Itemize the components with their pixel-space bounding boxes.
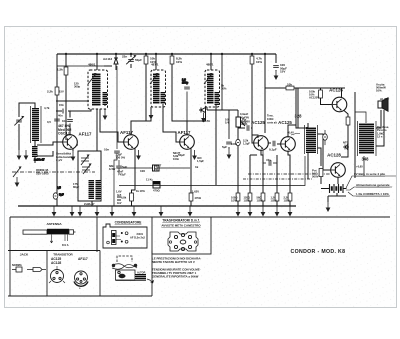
svg-text:15V: 15V: [59, 90, 64, 94]
driver transformer 328 winding: [306, 127, 316, 153]
svg-text:5µF: 5µF: [222, 145, 227, 149]
svg-text:4,7k: 4,7k: [44, 106, 50, 110]
svg-text:5µF: 5µF: [59, 193, 64, 197]
diode AA112: [114, 54, 118, 70]
variable capacitor oscillator section arrow: [13, 166, 22, 177]
wire IFT3 secondary down: [215, 105, 217, 185]
wire driver primary bottom: [307, 153, 309, 179]
transistor AF117 pinout: [75, 271, 88, 284]
wire emitter T4: [261, 150, 263, 193]
svg-text:1k 10%: 1k 10%: [136, 189, 145, 193]
wire IFT2 top lead: [155, 54, 157, 70]
svg-text:470Ω: 470Ω: [195, 196, 201, 200]
svg-text:100: 100: [140, 169, 145, 173]
svg-text:TRASFORMATORI D.m.f.: TRASFORMATORI D.m.f.: [162, 219, 200, 223]
earphone wiring drawing: [117, 256, 132, 262]
battery 6V: [330, 184, 344, 193]
wire output secondary down: [363, 156, 365, 176]
ground detector: [201, 113, 206, 123]
jack cell divider: [46, 251, 48, 297]
svg-text:487/1: 487/1: [151, 63, 159, 67]
wire top supply bus: [57, 53, 276, 55]
capacitor mounting dots: [107, 241, 110, 244]
wire emitter T2: [132, 148, 136, 194]
coupling cap T4-T5: [268, 143, 281, 144]
wire emitter T1: [72, 148, 74, 151]
ground battery: [326, 202, 331, 212]
resistor emitter T5: [288, 193, 292, 201]
capacitor neutralizing 10n: [67, 120, 73, 122]
resistor emitter T2: [130, 193, 134, 201]
svg-text:Stintn: Stintn: [240, 122, 248, 126]
wire IFT1 primary top lead: [96, 54, 98, 70]
wire to bus: [190, 201, 192, 206]
svg-text:15V: 15V: [280, 70, 285, 74]
wire to AC128 collector: [341, 125, 348, 157]
svg-text:CONDOR - MOD. K8: CONDOR - MOD. K8: [291, 249, 346, 255]
svg-text:JACK: JACK: [20, 253, 29, 257]
wire antenna top: [19, 103, 35, 117]
wire coil interlink: [34, 141, 36, 163]
svg-text:AF D,5n 2x2: AF D,5n 2x2: [130, 235, 145, 239]
transistor AC125 driver: [281, 137, 296, 152]
svg-text:AA112: AA112: [103, 57, 113, 61]
ground coil return: [24, 150, 29, 160]
interstage line: [117, 167, 190, 169]
wire collector AC126 to bias: [341, 88, 343, 98]
svg-text:100 5%: 100 5%: [116, 156, 126, 160]
svg-text:2,2k: 2,2k: [47, 90, 53, 94]
svg-text:2,5: 2,5: [57, 186, 61, 190]
tuning capacitor trimmer: [112, 231, 117, 245]
svg-text:AC125V: AC125V: [309, 96, 319, 100]
ground T2 emitter: [136, 150, 141, 160]
svg-text:+47µF: +47µF: [118, 173, 126, 177]
svg-text:Rodagg: Rodagg: [240, 119, 250, 123]
neutralizing wire mid: [114, 66, 117, 206]
svg-text:NTC: NTC: [343, 141, 349, 145]
svg-text:5pF: 5pF: [154, 167, 159, 171]
diode thermistor NTC: [343, 145, 349, 150]
output transformer 348 core: [358, 121, 377, 156]
svg-text:AC125: AC125: [278, 120, 292, 125]
wire emitter T5: [288, 151, 290, 193]
svg-text:D E A: D E A: [62, 244, 69, 247]
row divider: [8, 250, 100, 252]
wire down to resistor row: [237, 146, 239, 193]
svg-text:15k: 15k: [59, 103, 64, 107]
oscillator block box: [78, 151, 101, 201]
AF feed line: [265, 87, 345, 89]
svg-text:10%: 10%: [256, 60, 262, 64]
svg-text:6,8k: 6,8k: [121, 196, 127, 200]
svg-text:0,3auF: 0,3auF: [240, 112, 249, 116]
transistor cell divider: [99, 251, 101, 297]
svg-text:80pF: 80pF: [73, 185, 80, 189]
svg-text:OSCILL.: OSCILL.: [58, 132, 71, 136]
wire emitter T3: [190, 148, 192, 194]
wire driver secondary lower: [318, 148, 322, 166]
detector diode OA79: [199, 107, 229, 113]
wire collector T5 to driver transformer: [288, 88, 308, 137]
transistor AC126: [332, 97, 347, 112]
svg-text:NORMA: NORMA: [12, 263, 22, 267]
telescopic antenna drawing: [23, 230, 47, 234]
svg-text:ANTENNA: ANTENNA: [46, 222, 62, 226]
speaker: [378, 101, 382, 108]
wire emitter AC126 down: [344, 111, 348, 118]
electrolytic on rail: [53, 193, 58, 199]
svg-text:10n: 10n: [62, 119, 67, 123]
svg-text:6V Batt. in serie 4 pile: 6V Batt. in serie 4 pile: [354, 172, 385, 176]
wire collector T3: [187, 107, 206, 135]
svg-text:1,5µF: 1,5µF: [197, 159, 204, 163]
capacitor AGC 47n: [116, 166, 122, 168]
svg-text:470Ω: 470Ω: [153, 189, 160, 193]
antenna cell divider: [96, 217, 98, 252]
svg-text:+0,4V: +0,4V: [287, 131, 294, 135]
IF transformer can 1: [88, 70, 108, 109]
svg-text:CONDENSATORE: CONDENSATORE: [115, 221, 142, 225]
svg-text:serie alt: serie alt: [267, 120, 277, 124]
wire osc top lead: [96, 109, 98, 151]
svg-text:AC128: AC128: [327, 153, 341, 158]
svg-text:50µF: 50µF: [135, 58, 142, 62]
svg-text:2x98+47: 2x98+47: [34, 158, 45, 162]
cells bottom rule: [8, 295, 152, 297]
capacitor NEUT 5pF: [153, 165, 160, 171]
svg-text:1kV: 1kV: [117, 202, 122, 205]
svg-text:1,5µF: 1,5µF: [243, 142, 250, 146]
transistor AF117 second IF: [180, 135, 195, 150]
svg-text:348: 348: [362, 157, 370, 162]
svg-text:486/1: 486/1: [88, 63, 96, 67]
svg-text:328: 328: [295, 114, 303, 119]
resistor GR 11kc filter: [153, 182, 160, 189]
svg-text:2x98+47: 2x98+47: [84, 202, 95, 206]
svg-text:10n: 10n: [104, 148, 109, 152]
wire bus end drop: [275, 54, 277, 71]
capacitor coupling 47n: [269, 160, 271, 166]
earphone cell right divider: [151, 251, 153, 297]
transistor AC125 first AF: [254, 136, 269, 151]
driver transformer 328 core: [305, 125, 318, 154]
ground IFT2 primary return: [149, 110, 154, 120]
wire battery to ground: [328, 193, 346, 202]
svg-text:AVVISTE META CANESTRO: AVVISTE META CANESTRO: [161, 223, 201, 227]
capacitor small mid: [114, 151, 120, 153]
svg-text:12 n: 12 n: [377, 135, 383, 139]
svg-text:10k: 10k: [287, 83, 292, 87]
svg-text:AF117: AF117: [120, 130, 133, 135]
IF transformer can 2: [151, 70, 166, 107]
svg-text:10%: 10%: [176, 60, 182, 64]
wire bias T5: [276, 155, 278, 193]
wire collector T2: [131, 107, 151, 135]
dashed AGC line: [243, 178, 312, 180]
svg-text:AF117: AF117: [178, 130, 191, 135]
feedback line: [119, 156, 305, 186]
svg-text:1k: 1k: [195, 165, 199, 169]
svg-text:5µF: 5µF: [122, 165, 127, 169]
wire from bus to detector: [222, 54, 229, 149]
callout line battery voltage: [346, 176, 396, 188]
ferrite antenna coil L1: [32, 108, 39, 141]
resistor 8,2k: [172, 54, 187, 121]
capacitor electrolytic 5uF: [236, 139, 241, 145]
svg-text:500V: 500V: [312, 175, 319, 179]
svg-text:AC125: AC125: [251, 120, 265, 125]
wire IFT2 secondary to base: [163, 104, 180, 142]
svg-text:100n: 100n: [173, 157, 179, 161]
callout line supply: [346, 187, 392, 190]
AGC line: [57, 65, 104, 67]
transistor AC125/AC128 pinout: [51, 270, 64, 283]
svg-text:MENTE TARATE BATTITO 1/2 V: MENTE TARATE BATTITO 1/2 V: [152, 260, 195, 264]
capacitor on supply rail: [54, 119, 60, 121]
feedback line 2: [248, 173, 330, 175]
wire IFT3 top lead: [210, 54, 212, 70]
svg-text:10%: 10%: [221, 87, 227, 91]
wire extra bias: [249, 155, 251, 193]
svg-text:0,1µF: 0,1µF: [269, 148, 277, 152]
resistor row r1: [236, 193, 240, 201]
info band top rule: [10, 216, 390, 218]
svg-text:AF117: AF117: [78, 257, 88, 261]
transistor AC128 output: [331, 163, 346, 178]
svg-text:10%: 10%: [376, 89, 382, 93]
ground: [17, 150, 22, 160]
svg-text:AC128: AC128: [51, 261, 61, 265]
trimmer arrow: [126, 54, 136, 66]
jack plug drawing: [12, 269, 30, 271]
variable capacitor tuning: [16, 120, 22, 122]
svg-text:Tens.: Tens.: [267, 114, 274, 118]
volume potentiometer 10k: [236, 117, 241, 127]
wire rail tap: [56, 100, 89, 102]
electrolytic cap AF: [323, 134, 328, 140]
capacitor 40n series: [63, 109, 66, 114]
resistor 10k horizontal: [286, 86, 294, 90]
svg-text:100Ω: 100Ω: [267, 117, 273, 121]
wire collector to IFT1: [56, 109, 91, 135]
capacitor trimmer 50pF: [130, 54, 132, 68]
ground T1 emitter: [71, 151, 76, 161]
resistor emitter T4: [261, 193, 265, 201]
svg-text:11 Kc: 11 Kc: [146, 178, 154, 182]
svg-text:ALTOP.: ALTOP.: [137, 272, 146, 275]
right rail: [354, 92, 356, 178]
svg-text:2 µV: 2 µV: [56, 158, 62, 162]
antenna coupling coil L2: [32, 146, 38, 157]
svg-text:0,5: 0,5: [47, 120, 51, 124]
ground arrows row right: [236, 207, 241, 217]
transistor AF117 first IF: [124, 135, 139, 150]
svg-text:50µF6V: 50µF6V: [240, 115, 249, 119]
oscillator coil winding 1: [89, 180, 95, 199]
resistor 10k: [138, 54, 146, 121]
svg-text:AF117: AF117: [79, 132, 92, 137]
trimmer capacitor osc 1: [81, 154, 90, 165]
resistor 4,7k feed AC125: [252, 54, 258, 138]
resistor emitter T3: [189, 193, 193, 201]
wire to ground: [18, 124, 20, 150]
ground: [274, 70, 279, 80]
svg-text:40n: 40n: [58, 114, 63, 118]
wire pot top from detector: [229, 110, 238, 117]
wire AF amp feed: [264, 54, 266, 133]
svg-text:TRANSISTOR: TRANSISTOR: [53, 253, 73, 257]
svg-text:1/2W: 1/2W: [271, 198, 278, 202]
svg-text:1,62V: 1,62V: [192, 190, 199, 194]
wire driver secondary to AC128 base: [318, 134, 331, 170]
svg-text:488/1: 488/1: [206, 63, 214, 67]
wire pot bottom: [237, 127, 239, 139]
svg-text:22n: 22n: [122, 55, 127, 59]
svg-text:47n: 47n: [266, 158, 271, 162]
svg-text:100p: 100p: [182, 81, 188, 85]
svg-text:1,5k: 1,5k: [57, 68, 63, 72]
svg-text:I. Re CORRETTA ± 10%: I. Re CORRETTA ± 10%: [356, 192, 389, 196]
resistor 100k bias: [320, 88, 322, 90]
output transformer 348 winding: [359, 123, 374, 154]
ground T3 emitter: [192, 150, 197, 160]
wire output transformer top: [355, 112, 366, 123]
svg-text:1/2W: 1/2W: [257, 198, 264, 202]
svg-text:300p: 300p: [74, 85, 80, 89]
coupling capacitor: [238, 127, 252, 129]
oscillator coil winding 2: [96, 180, 102, 200]
bottom ground bus: [18, 205, 296, 207]
svg-text:GENERALITE RIPORTATA a 50kW: GENERALITE RIPORTATA a 50kW: [152, 275, 199, 279]
tuning gang dashed link: [12, 171, 95, 173]
svg-text:AL70F: AL70F: [380, 97, 389, 101]
svg-text:1/2W: 1/2W: [244, 198, 251, 202]
wire base T4: [252, 128, 254, 143]
capacitor 50uF to ground: [273, 66, 279, 68]
callout wire 0,4V: [291, 134, 300, 136]
IF transformer can 3: [205, 70, 220, 107]
svg-text:AC126: AC126: [329, 88, 343, 93]
IF transformer pinout drawing: [168, 232, 198, 251]
wire base AC126: [321, 98, 332, 105]
transistor AF117 converter: [63, 135, 78, 150]
svg-text:+0,65: +0,65: [356, 165, 363, 169]
svg-text:100n: 100n: [231, 142, 237, 146]
wire to speaker: [376, 110, 384, 146]
svg-text:1/4: 1/4: [225, 121, 229, 125]
wire dropper from bus: [65, 54, 67, 140]
svg-text:535-1605: 535-1605: [36, 171, 49, 175]
ground arrows row left: [54, 205, 80, 208]
wire left supply rail: [56, 54, 58, 206]
svg-text:OA79: OA79: [202, 119, 210, 123]
svg-text:1,6V: 1,6V: [116, 190, 122, 194]
wire osc bottom lead: [91, 201, 93, 206]
junction dots: [65, 53, 266, 55]
trasformatori box: [152, 217, 211, 254]
svg-text:1/2W: 1/2W: [231, 198, 238, 202]
resistor AC128 bias lower: [319, 169, 323, 177]
svg-text:1/2W: 1/2W: [284, 198, 291, 202]
trimmer capacitor osc 2: [83, 163, 92, 174]
ground AGC filter: [227, 149, 232, 159]
capacitor neutralizing interstage: [186, 82, 188, 121]
info band left border: [9, 217, 11, 296]
capacitor 4n5 beside rail: [117, 197, 121, 200]
ground under IFT1 secondary: [104, 109, 106, 110]
svg-text:Alimentazione generale: Alimentazione generale: [356, 183, 390, 187]
wire IFT1 secondary to base: [100, 105, 124, 142]
svg-text:1/4W: 1/4W: [109, 167, 116, 171]
resistor 1,5k on left rail: [55, 87, 59, 95]
resistor 1,5k: [64, 67, 68, 75]
resistor emitter AC126: [346, 117, 350, 125]
wire base feed: [37, 142, 63, 156]
callout line current: [348, 192, 390, 196]
wire driver primary top: [298, 88, 308, 128]
capacitor AGC filter: [226, 142, 232, 144]
ground: [15, 177, 20, 187]
wire AC128 emitter to battery: [337, 178, 339, 184]
wire AGC segment: [104, 65, 112, 67]
wire emitter to osc: [77, 144, 78, 146]
condensatore box: [103, 224, 147, 248]
